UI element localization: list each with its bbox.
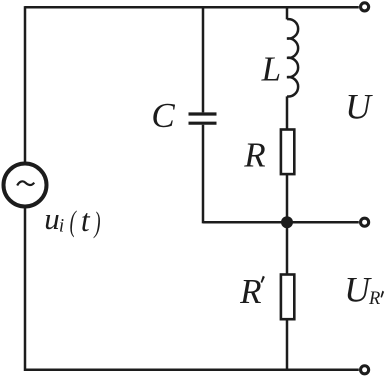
capacitor C1 top lead — [202, 7, 205, 112]
resistor R2 body (R') — [281, 275, 294, 320]
label U_R' — [344, 269, 384, 309]
svg-text:i: i — [59, 216, 64, 237]
inductor L1 top lead — [286, 6, 289, 19]
wire: left vertical from top to source — [24, 6, 27, 163]
capacitor C1 plates — [189, 114, 217, 123]
svg-text:R: R — [368, 289, 380, 309]
svg-text:U: U — [345, 87, 373, 127]
label R' — [239, 272, 265, 311]
terminal: middle right — [361, 218, 369, 226]
wire: left vertical from source to bottom — [24, 207, 27, 372]
source U1 sinusoidal — [4, 164, 47, 207]
wire: top horizontal bus — [25, 6, 359, 9]
resistor R1 body — [281, 130, 294, 175]
wire: bottom horizontal bus — [25, 369, 359, 372]
wire: middle horizontal from capacitor to output node — [203, 221, 359, 224]
capacitor C1 bottom lead — [202, 125, 205, 224]
svg-text:L: L — [261, 50, 281, 89]
svg-text:): ) — [93, 207, 101, 239]
node junction dot — [281, 216, 293, 228]
svg-text:R: R — [239, 272, 261, 311]
svg-text:R: R — [243, 135, 265, 174]
terminal: bottom right — [361, 366, 369, 374]
label u_i(t) — [44, 201, 100, 239]
inductor L1 coil — [287, 19, 298, 96]
svg-text:(: ( — [70, 206, 77, 238]
svg-text:U: U — [344, 269, 372, 309]
svg-text:t: t — [81, 203, 91, 238]
wire: right branch vertical through R to node and to R' — [286, 96, 289, 371]
svg-text:u: u — [44, 201, 60, 236]
terminal: top right — [361, 3, 369, 11]
svg-text:C: C — [151, 96, 175, 135]
